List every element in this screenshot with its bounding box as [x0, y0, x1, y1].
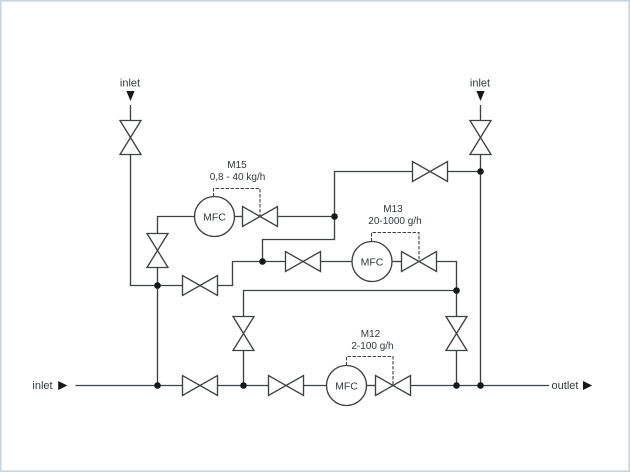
wire: node A down to node F	[157, 286, 159, 386]
valve V4 (top right horizontal)	[413, 162, 448, 182]
wire: MFC M15 to valve V3	[235, 216, 243, 218]
valve V2 (left branch vertical)	[147, 234, 168, 268]
valve V7 (M13 control valve)	[402, 252, 437, 272]
inlet1 arrow	[126, 91, 134, 101]
node I junction	[453, 382, 460, 389]
wire: node B up and right to valve V4	[335, 172, 413, 217]
wire: MFC M13 to valve V7	[392, 261, 402, 263]
wire: valve V13 right corner up to node D	[218, 262, 263, 286]
wire: valve V2 top up and right to MFC M15	[158, 217, 195, 234]
valve V11 (bottom row 2)	[269, 376, 304, 396]
svg-text:M13: M13	[383, 204, 403, 215]
wire: valve V8 bottom to node G	[243, 351, 245, 386]
node G junction	[240, 382, 247, 389]
node J junction	[477, 382, 484, 389]
svg-text:outlet: outlet	[552, 380, 579, 392]
node A junction	[154, 282, 161, 289]
wire: valve V6 to MFC M13	[321, 261, 353, 263]
wire: inlet3 arrow to node F	[76, 385, 158, 387]
wire: node F to valve V10	[158, 385, 183, 387]
outlet arrow	[583, 381, 592, 390]
wire: valve V12 through node I and node J to outlet	[411, 385, 550, 387]
control line MFC M12 to valve V12 (dashed)	[347, 357, 394, 386]
svg-text:0,8 - 40 kg/h: 0,8 - 40 kg/h	[210, 172, 266, 183]
node F junction	[154, 382, 161, 389]
valve V9 (bypass right vertical)	[446, 317, 467, 351]
wire: valve V3 to node B	[278, 216, 335, 218]
svg-text:MFC: MFC	[203, 212, 226, 224]
wire: valve V4 to node C	[448, 171, 481, 173]
wire: valve V10 to node G	[218, 385, 244, 387]
wire: node D to valve V6	[263, 261, 286, 263]
node D junction	[259, 258, 266, 265]
wire: inlet2 valve V5 bottom to node C	[480, 155, 482, 172]
valve V6 (M13 left)	[286, 252, 321, 272]
inlet3 arrow	[58, 381, 67, 390]
svg-text:inlet: inlet	[120, 77, 140, 89]
MFC M15 body	[195, 197, 235, 237]
control line MFC M15 to valve V3 (dashed)	[214, 189, 261, 217]
wire: node A to valve V13 (y285 row)	[158, 285, 183, 287]
wire: node E down to valve V9	[456, 291, 458, 317]
svg-text:M12: M12	[361, 329, 381, 340]
valve V5 (inlet2 vertical)	[470, 121, 491, 155]
control line MFC M13 to valve V7 (dashed)	[372, 233, 420, 262]
wire: node C down to node J (outlet line)	[480, 172, 482, 386]
inlet2 arrow	[476, 91, 484, 101]
valve V8 (bypass left vertical)	[233, 317, 254, 351]
valve V13 (y285 row horizontal)	[183, 276, 218, 296]
valve V12 (M12 control valve)	[376, 376, 411, 396]
wire: node G to valve V11	[244, 385, 269, 387]
svg-text:MFC: MFC	[335, 381, 358, 393]
wire: MFC M12 to valve V12	[367, 385, 376, 387]
svg-text:2-100 g/h: 2-100 g/h	[351, 341, 393, 352]
node C junction	[477, 168, 484, 175]
svg-text:MFC: MFC	[361, 257, 384, 269]
wire: valve V7 right corner down to node E	[437, 262, 457, 291]
svg-text:inlet: inlet	[470, 77, 490, 89]
wire: inlet1 valve down and right to node A	[131, 155, 158, 286]
wire: node E left along bypass and down to valve V8	[244, 291, 457, 317]
svg-text:M15: M15	[227, 160, 247, 171]
svg-text:inlet: inlet	[32, 380, 52, 392]
wire: valve V11 to MFC M12	[304, 385, 327, 387]
valve V3 (M15 control valve)	[243, 207, 278, 227]
wire: inlet1 stub below arrow	[130, 105, 132, 121]
MFC M12 body	[327, 366, 367, 406]
node B junction	[331, 213, 338, 220]
svg-text:20-1000 g/h: 20-1000 g/h	[368, 216, 421, 227]
wire: valve V9 bottom to node I	[456, 351, 458, 386]
valve V10 (bottom row 1)	[183, 376, 218, 396]
wire: inlet2 stub below arrow	[480, 105, 482, 121]
valve V1 (inlet1 vertical)	[120, 121, 141, 155]
wire: node A up to valve V2 bottom	[157, 268, 159, 286]
node E junction	[453, 287, 460, 294]
wire: node B dogleg down-left to node D	[263, 217, 335, 262]
MFC M13 body	[352, 242, 392, 282]
